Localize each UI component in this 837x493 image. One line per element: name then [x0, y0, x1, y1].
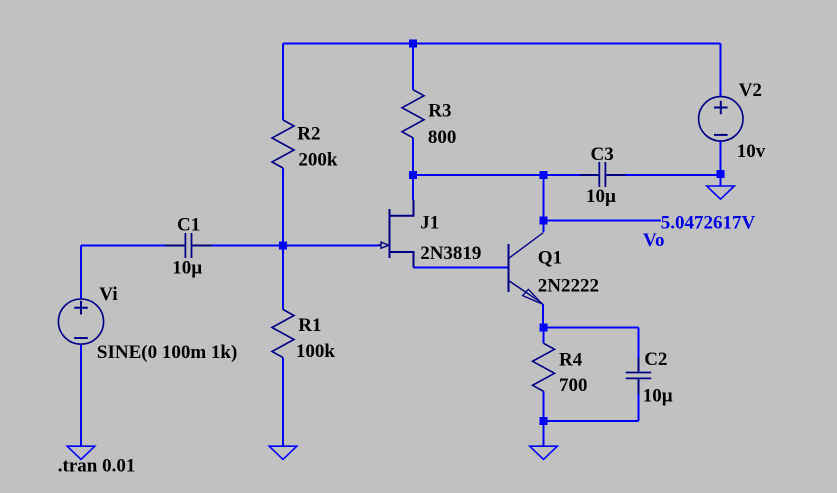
svg-text:R2: R2: [297, 123, 320, 144]
svg-text:800: 800: [428, 127, 457, 148]
wire R1 top: [282, 246, 284, 310]
wire input rail left of C1: [81, 245, 166, 247]
wire R4 ground stub: [543, 421, 545, 446]
wire V2 bottom to ground: [720, 141, 722, 186]
svg-text:Vi: Vi: [99, 284, 117, 305]
svg-text:C2: C2: [644, 349, 667, 370]
svg-text:Q1: Q1: [538, 247, 562, 268]
svg-text:700: 700: [559, 375, 588, 396]
junction node at input/R1/R2: [279, 242, 287, 250]
junction node at R4 bottom / ground: [540, 417, 548, 425]
capacitor C3: [580, 162, 626, 187]
svg-text:J1: J1: [420, 213, 439, 234]
resistor R1: [272, 310, 294, 358]
resistor R2: [272, 120, 294, 168]
svg-text:10µ: 10µ: [586, 186, 616, 207]
svg-text:2N2222: 2N2222: [538, 275, 599, 296]
svg-text:SINE(0 100m 1k): SINE(0 100m 1k): [97, 342, 237, 363]
capacitor C2: [626, 358, 652, 394]
svg-text:10µ: 10µ: [643, 385, 673, 406]
wire Vo stub: [544, 220, 662, 222]
junction node at emitter/R4/C2: [540, 324, 548, 332]
resistor R4: [533, 343, 555, 391]
junction node at Vo stub: [540, 217, 548, 225]
svg-text:200k: 200k: [298, 150, 338, 171]
wire R1 bottom to ground: [282, 358, 284, 446]
ground under V2: [707, 186, 735, 199]
svg-text:R4: R4: [559, 350, 583, 371]
wire Q1 emitter down: [542, 304, 544, 328]
wire drain rail to C3: [413, 174, 580, 176]
svg-text:R1: R1: [298, 315, 321, 336]
wire J1 source to Q1 base: [414, 267, 509, 269]
svg-text:10v: 10v: [737, 141, 766, 162]
ground under Vi: [67, 446, 95, 459]
wire R2 bottom: [282, 168, 284, 246]
svg-text:Vo: Vo: [643, 230, 664, 251]
wire R3 top: [412, 44, 414, 90]
transistor J1 (njf 2N3819): [379, 200, 414, 268]
junction node at rail/R3: [409, 40, 417, 48]
junction node at R3 bottom / J1 drain: [409, 171, 417, 179]
wire R4 top: [543, 328, 545, 344]
wire top rail: [283, 43, 721, 45]
wire collector vertical: [543, 175, 545, 232]
wire input rail right of C1 to gate: [212, 245, 379, 247]
ground under R1: [269, 446, 297, 459]
svg-text:5.0472617V: 5.0472617V: [661, 212, 756, 233]
capacitor C1: [165, 233, 212, 258]
wire V2 top drop: [720, 44, 722, 97]
svg-text:.tran 0.01: .tran 0.01: [58, 456, 136, 477]
svg-text:C1: C1: [177, 215, 200, 236]
wire R2 top: [282, 44, 284, 121]
wire C2 top lead blue: [638, 328, 640, 359]
ground under R4: [530, 446, 558, 459]
transistor Q1 (npn 2N2222): [509, 233, 544, 305]
wire bottom node to C2 bottom: [544, 420, 639, 422]
svg-text:C3: C3: [591, 144, 614, 165]
svg-text:R3: R3: [428, 101, 451, 122]
wire emitter node to C2: [544, 327, 639, 329]
resistor R3: [402, 90, 424, 138]
wire Vi top: [80, 246, 82, 300]
svg-text:V2: V2: [739, 80, 762, 101]
junction node at V2 minus: [717, 170, 725, 178]
wire Vi bottom to ground: [80, 344, 82, 446]
voltage source V2: [699, 97, 743, 141]
wire R3 bottom: [412, 138, 414, 175]
svg-text:100k: 100k: [296, 341, 336, 362]
wire R4 bottom: [543, 391, 545, 421]
wire J1 drain vertical: [412, 175, 414, 200]
svg-text:10µ: 10µ: [172, 258, 202, 279]
wire C3 right to V2 node: [626, 174, 721, 176]
wire C2 bottom lead blue: [638, 394, 640, 421]
voltage source Vi: [58, 299, 103, 344]
svg-text:2N3819: 2N3819: [420, 243, 481, 264]
junction node at drain rail x543: [540, 171, 548, 179]
